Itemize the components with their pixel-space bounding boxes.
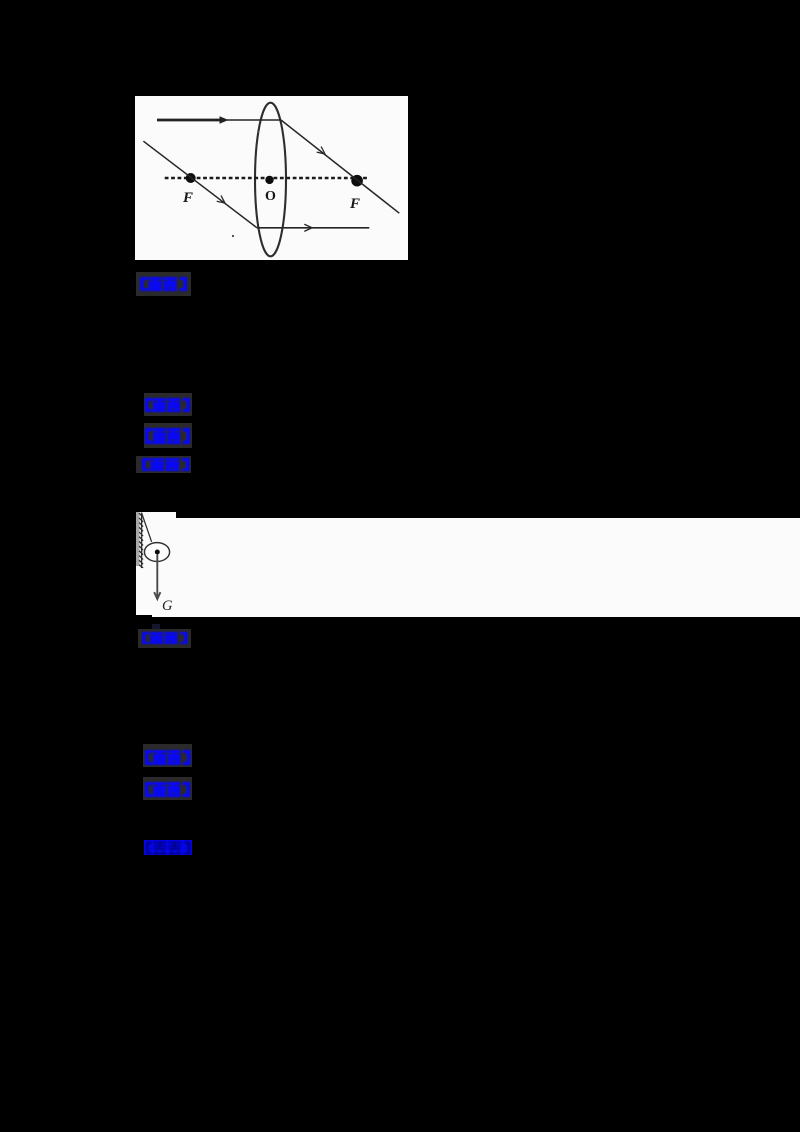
incident ray through left focus F xyxy=(143,141,257,228)
string xyxy=(142,514,152,542)
svg-text:G: G xyxy=(162,598,173,614)
ball (ellipse) xyxy=(144,543,169,562)
wall hatch band xyxy=(136,512,140,566)
emergent ray parallel to axis xyxy=(257,227,369,229)
centre of gravity dot xyxy=(155,550,160,555)
figure: pendulum with gravity arrow (answer figure, problem 2) xyxy=(136,512,176,518)
svg-text:O: O xyxy=(265,189,276,204)
label 【考点】 problem 3 xyxy=(143,744,192,768)
speck xyxy=(232,235,234,237)
label 【解答】 problem 2 xyxy=(136,456,191,473)
focal point F (right) dot xyxy=(351,175,363,187)
label 【分析】 problem 3 xyxy=(143,777,192,800)
svg-text:F: F xyxy=(349,196,360,212)
focal point F (left) dot xyxy=(186,173,196,183)
lens L (ellipse) xyxy=(255,103,286,257)
label 【解答】 problem 3 (blue highlighted) xyxy=(144,840,192,855)
gravity arrow G xyxy=(156,555,158,598)
label 【点评】 problem 1 xyxy=(136,272,191,296)
label 【点评】 problem 2 xyxy=(138,629,192,648)
wall hatching ticks xyxy=(139,513,143,568)
optical centre O dot xyxy=(265,176,273,184)
speck xyxy=(257,131,259,133)
label F (left) xyxy=(182,189,360,212)
refracted ray through right focus F xyxy=(281,120,399,213)
label 【考点】 problem 2 xyxy=(144,393,192,416)
principal axis (dashed) xyxy=(165,177,368,179)
small dark tab above label xyxy=(152,624,160,629)
figure: converging lens ray diagram (answer figure, problem 1) xyxy=(135,96,408,260)
incident ray parallel to axis (thick arrow) xyxy=(157,119,222,122)
label 【分析】 problem 2 xyxy=(144,423,192,448)
wall line xyxy=(141,513,143,569)
svg-text:F: F xyxy=(182,190,193,206)
